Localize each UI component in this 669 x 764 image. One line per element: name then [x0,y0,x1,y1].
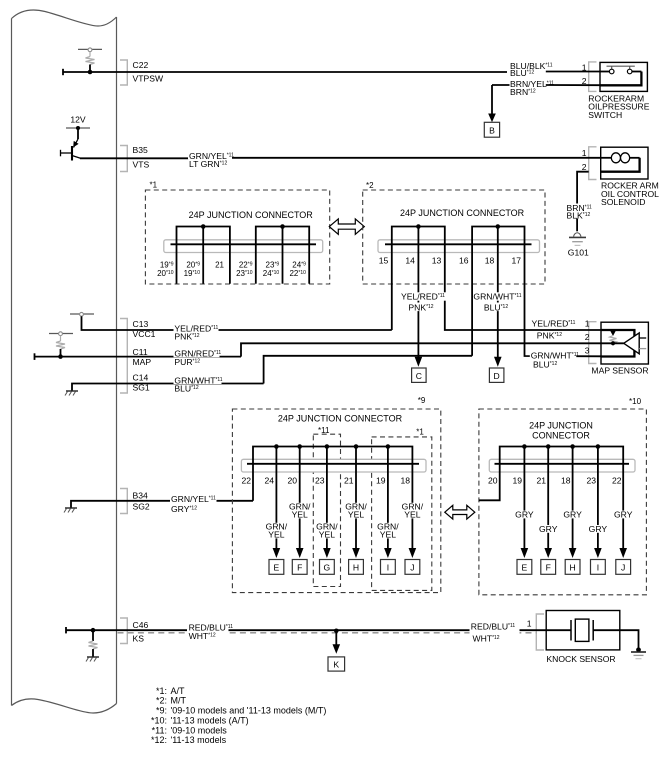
arrowhead to E (*10) [521,548,529,558]
wire pin 16 drop to SG1 line [471,244,473,355]
svg-text:17: 17 [511,256,521,266]
svg-text:YEL: YEL [404,510,420,520]
pin label B35 / VTS [133,145,150,169]
pin label 22/23 [236,261,253,279]
svg-text:12V: 12V [70,115,86,125]
pin 22 elbow to SG2 wire [252,464,254,501]
svg-text:VTS: VTS [133,160,150,170]
wire SG2 (B34 to junction pin 22) [117,500,254,502]
node junction at KS capacitor [91,628,96,633]
pin 20 elbow to box edge [479,464,500,501]
svg-text:J: J [621,563,625,573]
svg-text:*11:: *11: [152,725,167,735]
svg-text:KNOCK SENSOR: KNOCK SENSOR [546,654,615,664]
svg-text:19: 19 [376,476,386,486]
svg-text:B34: B34 [133,490,149,500]
node junction to arrow K [334,629,339,634]
svg-text:GRY: GRY [515,510,534,520]
bus bar *2 [385,243,532,245]
wire pin 21 drop to F [547,464,549,549]
pin label C46 / KS [133,620,149,644]
destination box B [484,122,499,137]
svg-text:MAP: MAP [133,357,152,367]
pin label 23/24 [263,261,280,279]
svg-text:'11-13 models: '11-13 models [171,735,227,745]
connector housing *1 [164,240,323,253]
24P junction connector box *10 (dashed) [479,397,647,595]
arrowhead to B [488,114,496,123]
node junction at pull-up [88,70,93,75]
svg-text:19: 19 [512,476,522,486]
connector bracket solenoid [589,147,597,180]
svg-text:YEL: YEL [268,530,284,540]
svg-text:18: 18 [485,256,495,266]
svg-text:B: B [489,125,495,135]
internal ground at SG2 [64,501,117,513]
wire pin 18 drop to H [572,464,574,549]
svg-text:B35: B35 [133,145,149,155]
wire pin 18 drop to J [411,464,413,549]
svg-text:24P JUNCTION CONNECTOR: 24P JUNCTION CONNECTOR [400,208,525,218]
bus bar *1 [171,243,317,245]
arrowhead to E [273,548,281,558]
12V internal supply [66,115,90,140]
wire label RED/BLU / WHT at knock sensor [470,621,520,643]
destination box F (*10) [541,560,556,575]
label ROCKERARM OILPRESSURE SWITCH [588,93,649,120]
arrowhead to G [323,548,331,558]
svg-text:15: 15 [379,256,389,266]
svg-text:I: I [597,563,599,573]
wire VTS (B35 to solenoid pin 1) [80,157,601,160]
arrowhead to K [333,644,341,654]
bridge 15-14-13 [392,224,445,244]
pin label B34 / SG2 [133,490,150,511]
connector housing *2 [378,240,540,253]
svg-text:E: E [522,563,528,573]
arrowhead to D [494,357,502,367]
svg-text:G101: G101 [568,248,589,258]
svg-text:GRY: GRY [539,524,558,534]
wire pin 23 drop to G [326,464,328,549]
connector bracket C13/C11/C14 [120,319,127,394]
wire label GRN/WHT / BLU at C14 [174,375,223,393]
24P junction connector box *2 (dashed) [363,181,545,284]
svg-text:22: 22 [241,476,251,486]
wire pin 15 drop to VCC1 [391,244,393,330]
connector bracket C22 [120,60,127,85]
wire label BLU/BLK / BLU [509,61,552,78]
svg-text:'09-10 models and '11-13 model: '09-10 models and '11-13 models (M/T) [171,706,327,716]
svg-text:21: 21 [215,261,224,270]
equivalence double arrow top [329,219,364,234]
svg-text:24P JUNCTION CONNECTOR: 24P JUNCTION CONNECTOR [278,414,403,424]
bridge 16-18-17 [472,224,524,244]
wire label GRN/YEL pin 24 [266,522,288,540]
svg-text:GRY: GRY [563,510,582,520]
svg-text:H: H [353,563,359,573]
knock sensor piezo element [546,611,620,650]
svg-text:*11: *11 [318,426,330,435]
wire pin 21 drop to H [355,464,357,549]
destination box C [412,368,427,382]
svg-text:F: F [546,563,551,573]
svg-text:2: 2 [582,162,587,172]
svg-text:KS: KS [133,633,145,643]
destination box J [405,560,420,575]
svg-text:21: 21 [536,476,546,486]
connector housing *10 [489,459,635,472]
internal pull-up resistor at VTPSW [78,48,102,72]
svg-text:SWITCH: SWITCH [588,110,622,120]
svg-text:1: 1 [582,148,587,158]
bridge 19-20-21 [177,224,230,244]
wire label GRN/WHT / BLU under *2 [473,292,522,313]
pin stubs *1 [177,244,310,283]
wire KS (C46 to knock sensor) [66,627,547,633]
svg-text:1: 1 [527,618,532,628]
ground G101 [568,233,589,258]
pin label C22 / VTPSW [133,60,164,83]
destination box H [349,560,364,575]
svg-text:F: F [297,563,302,573]
alternate harness dashed wire KS [118,632,537,634]
svg-text:*9:: *9: [156,706,167,716]
svg-text:YEL: YEL [319,530,335,540]
bus bar *9 [247,463,419,465]
wire switch pin 2 to arrow B [492,85,601,115]
svg-text:1: 1 [585,319,590,329]
wire label GRN/YEL pin 20 [289,502,311,520]
svg-text:*1: *1 [150,181,158,190]
wire label YEL/RED / PNK at MAP sensor [532,319,576,341]
svg-text:C14: C14 [133,373,149,383]
destination box H (*10) [565,560,580,575]
svg-text:*2:: *2: [156,696,167,706]
wire drop to K [335,631,337,645]
wire label RED/BLU / WHT at C46 [187,622,233,640]
svg-text:20: 20 [488,476,498,486]
equivalence double arrow bottom [445,505,475,519]
svg-text:14: 14 [405,256,415,266]
connector bracket knock sensor [536,614,544,650]
wire label GRY pin 21 [539,524,558,534]
wire SG1 (C14 to junction pin 16) [117,356,473,384]
wire label YEL/RED / PNK under *2 [399,292,449,313]
wire label GRN/RED / PUR at C11 [174,348,222,367]
wire pin 18 drop to arrow D [497,244,499,357]
svg-text:20: 20 [287,476,297,486]
wire label GRN/YEL pin 19 [377,522,399,540]
svg-text:C11: C11 [133,347,148,357]
rocker arm oil control solenoid L1 [601,147,648,179]
connector bracket C46 [120,618,127,644]
wire label YEL/RED / PNK at C13 [174,323,219,341]
wire pin 20 drop to F [299,464,301,549]
svg-text:VTPSW: VTPSW [133,74,164,84]
svg-text:24: 24 [264,476,274,486]
arrowhead to J [409,548,417,558]
wire pin 23 drop to I [597,464,599,549]
24P junction connector box *9 (dashed) [232,396,440,593]
svg-text:18: 18 [400,476,410,486]
svg-text:M/T: M/T [171,696,187,706]
svg-text:VCC1: VCC1 [133,329,156,339]
wire label GRN/YEL / GRY at B34 [170,494,217,514]
svg-text:MAP SENSOR: MAP SENSOR [591,366,648,376]
wire pin 24 drop to E [275,464,277,549]
svg-text:*10:: *10: [151,715,167,725]
arrowhead to H [352,548,360,558]
svg-text:21: 21 [344,476,354,486]
wire pin 19 drop to E [523,464,525,549]
internal supply rail at VCC1 [70,312,117,330]
destination box K [328,657,345,671]
svg-text:3: 3 [585,346,590,356]
svg-text:SG1: SG1 [133,383,150,393]
svg-text:2: 2 [582,76,587,86]
wire VTPSW (C22 to switch pin 1) [63,69,601,75]
svg-text:D: D [493,371,499,381]
svg-text:*1:: *1: [156,686,167,696]
connector bracket B35 [120,146,127,172]
arrowhead to F [296,548,304,558]
footnotes [151,686,326,745]
svg-text:SOLENOID: SOLENOID [601,197,645,207]
wire pin 17 drop to MAP pin 3 [525,244,602,356]
wire knock sensor to ground [620,630,639,650]
svg-text:24P JUNCTION: 24P JUNCTION [529,421,593,431]
transistor Q1 (VTS driver) [61,139,81,161]
wire label GRN/YEL pin 21 [345,502,367,520]
wire label GRN/YEL / LT GRN [188,151,234,169]
destination box D [489,368,504,382]
internal pull-up at MAP input [49,332,73,357]
svg-text:J: J [410,563,414,573]
wire pin 14 drop to arrow C [417,244,419,357]
wire label GRY pin 23 [588,524,607,534]
wire label BRN/YEL / BRN [509,79,555,97]
internal ground at SG1 [65,384,117,396]
wire label BRN / BLK [566,203,592,221]
wire label GRY pin 19 [515,510,534,520]
wire label GRY pin 18 [563,510,582,520]
pin label C11 / MAP [133,347,152,367]
arrowhead to I [384,548,392,558]
svg-text:*1: *1 [416,428,424,437]
svg-text:H: H [569,563,575,573]
bridge bar *10 [500,444,624,464]
wire label GRN/WHT / BLU at MAP sensor [530,351,579,370]
destination box G [320,560,335,575]
bridge 22-23-24 [256,224,309,244]
svg-text:1: 1 [582,62,587,72]
MAP sensor U2 [601,322,648,364]
arrowhead to C [415,357,423,367]
connector bracket switch [589,62,597,92]
svg-text:18: 18 [561,476,571,486]
svg-text:G: G [324,563,331,573]
destination box E [269,560,284,575]
24P junction connector box *1 (dashed) [145,181,329,285]
svg-text:C46: C46 [133,620,149,630]
svg-text:*12:: *12: [151,735,167,745]
bridge bar *9 [253,444,412,464]
connector bracket MAP sensor [589,322,597,364]
svg-text:C13: C13 [133,319,149,329]
svg-text:'09-10 models: '09-10 models [171,725,228,735]
arrowhead to I (*10) [594,548,602,558]
node junction at MAP pull-up [58,354,63,359]
svg-text:YEL: YEL [292,510,308,520]
svg-text:SG2: SG2 [133,501,150,511]
arrowhead to H (*10) [569,548,577,558]
pin label C13 / VCC1 [133,319,156,339]
svg-text:GRY: GRY [589,524,608,534]
pin label C14 / SG1 [133,373,150,393]
rocker arm oil pressure switch U1 [600,62,647,91]
svg-text:24P JUNCTION CONNECTOR: 24P JUNCTION CONNECTOR [189,210,314,220]
svg-text:E: E [274,563,280,573]
pin label 24/22 [289,261,306,279]
svg-text:CONNECTOR: CONNECTOR [532,431,590,441]
inner dashed box *1 (bottom) [372,428,432,591]
svg-text:C22: C22 [133,60,149,70]
svg-text:*2: *2 [366,181,374,190]
svg-text:I: I [387,563,389,573]
wire label GRN/YEL pin 23 [316,522,338,540]
svg-text:22: 22 [612,476,622,486]
arrowhead to J (*10) [619,548,627,558]
wire pin 13 drop to MAP pin 1 [445,244,602,330]
svg-text:*9: *9 [418,396,426,405]
svg-text:A/T: A/T [171,686,186,696]
connector bracket B34 [120,489,127,514]
pin label 19/20 [157,261,174,279]
svg-text:YEL: YEL [348,510,364,520]
destination box F [292,560,307,575]
svg-text:2: 2 [585,332,590,342]
internal capacitor at KS [86,630,99,661]
label ROCKER ARM OIL CONTROL SOLENOID [601,181,659,207]
wire VCC1 (C13 to junction pin 15) [117,329,392,331]
destination box J (*10) [616,560,631,575]
svg-text:23: 23 [586,476,596,486]
inner dashed box *11 [313,426,340,587]
svg-text:GRY: GRY [614,510,633,520]
svg-text:13: 13 [432,256,442,266]
wire MAP signal (C11 to MAP sensor pin 2) [35,343,602,360]
wire label GRY pin 22 [614,510,633,520]
connector housing *9 [241,459,426,472]
ground at knock sensor [631,647,646,658]
svg-text:'11-13 models (A/T): '11-13 models (A/T) [171,715,249,725]
svg-text:16: 16 [459,256,469,266]
svg-text:23: 23 [315,476,325,486]
svg-text:C: C [416,371,422,381]
svg-text:K: K [333,660,339,670]
svg-text:YEL: YEL [380,530,396,540]
wire pin 19 drop to I [387,464,389,549]
pin label 20/19 [184,261,201,279]
bus bar *10 [495,463,630,465]
destination box I (*10) [591,560,606,575]
svg-text:*10: *10 [629,397,642,406]
wire solenoid pin 2 to G101 [577,172,589,232]
wire pin 22 drop to J [622,464,624,549]
destination box E (*10) [517,560,532,575]
arrowhead to F (*10) [544,548,552,558]
destination box I [381,560,396,575]
wire label GRN/YEL pin 18 [402,502,424,520]
ECM/PCM unit torn box [12,10,117,713]
